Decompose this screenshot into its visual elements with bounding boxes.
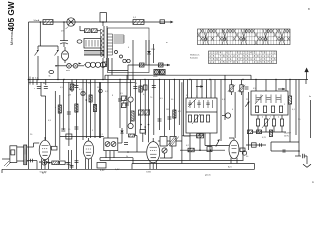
fuse lamp circle xyxy=(81,91,85,95)
trimmer cluster box A xyxy=(138,109,144,116)
IF transformer 3 can xyxy=(251,91,288,115)
wire drop x100 xyxy=(100,82,102,138)
svg-text:c: c xyxy=(34,88,35,90)
wire loop right vertical xyxy=(298,142,300,156)
capacitor stack c xyxy=(76,141,78,169)
resistor R2 heater dropper xyxy=(133,20,144,25)
wire drop x63 mid xyxy=(62,97,64,130)
wire drop x169 xyxy=(168,80,170,131)
dial lamp La1 xyxy=(67,18,75,26)
junction fuse left xyxy=(55,65,57,67)
wire heater arrow xyxy=(167,64,170,67)
svg-text:netz: netz xyxy=(66,69,70,72)
wire drop x76 lower xyxy=(75,97,77,141)
wire drop x37 caps xyxy=(36,80,38,86)
arrow label right xyxy=(278,88,285,90)
wire drop to transformer xyxy=(102,22,104,26)
wire IF1 bottom pins xyxy=(105,151,107,158)
contact table 1 xyxy=(198,29,291,45)
junction dots bundle xyxy=(86,99,88,101)
wire drop x148 xyxy=(148,80,150,143)
svg-text:6,3V~: 6,3V~ xyxy=(115,169,121,171)
svg-text:Wellensch.: Wellensch. xyxy=(190,55,200,57)
wire drop x133 upper xyxy=(132,40,134,80)
wire drop x59 lower xyxy=(59,95,61,160)
resistor R9 xyxy=(58,105,61,113)
wire screen row xyxy=(182,135,204,137)
tube V1 pins xyxy=(41,159,43,170)
capacitor C14 xyxy=(260,143,262,147)
capacitor C8 xyxy=(152,86,156,88)
wire drop x221 xyxy=(220,80,222,142)
bottom rect rail right join xyxy=(254,164,256,170)
svg-text:gleichr.: gleichr. xyxy=(205,174,211,177)
capacitor C21 xyxy=(31,159,33,163)
capacitor C22 xyxy=(61,129,65,131)
voltage selector box xyxy=(84,39,101,49)
below bus cluster boxes xyxy=(228,85,235,92)
wire V2 to V3 coupling xyxy=(118,151,146,153)
IF2 top row capacitors xyxy=(188,100,212,108)
transformer T1 core xyxy=(104,26,107,58)
pilot lamp pair xyxy=(154,69,159,74)
transformer T1 secondary taps xyxy=(107,34,113,55)
small circle in box b xyxy=(120,55,123,58)
small circle in box a xyxy=(115,51,118,54)
resistor R7a xyxy=(69,84,76,90)
box bottom right xyxy=(240,148,245,152)
box AVC mid xyxy=(66,134,72,139)
wire drop x241 xyxy=(241,80,243,85)
wire trafo to V1 xyxy=(27,146,34,148)
svg-text:2k: 2k xyxy=(126,156,128,158)
wire G2 rail xyxy=(180,149,225,151)
junction dots bottom xyxy=(39,161,41,163)
capacitor C10 mid xyxy=(167,117,171,119)
electrolytic circle x130 xyxy=(128,97,133,102)
box right of V1 xyxy=(52,146,58,150)
wire drop x45 xyxy=(45,80,47,86)
wire drop x153 xyxy=(153,80,155,136)
wire mains left drop xyxy=(28,22,30,169)
heater chain comb xyxy=(114,35,125,43)
capacitor C12 xyxy=(118,99,122,101)
wire side x310 xyxy=(310,100,312,138)
box right mid xyxy=(252,143,257,147)
capacitor C4 xyxy=(37,87,41,89)
svg-text:6e: 6e xyxy=(309,96,311,98)
wire trafo bottom out xyxy=(27,160,29,162)
resistor R22 screen xyxy=(197,134,204,138)
IF1 trimmer B xyxy=(111,142,116,147)
svg-text:U=220V: U=220V xyxy=(284,133,292,135)
wire drop x174 xyxy=(173,80,175,137)
wire drop x83 xyxy=(82,80,84,141)
wire R14 feed xyxy=(135,135,138,137)
junction node mains xyxy=(102,21,104,23)
wire IF1 feed b xyxy=(107,75,109,138)
grommet circle xyxy=(222,113,231,118)
IF2 tuning arrow top xyxy=(188,99,196,107)
rectifier tube V5 xyxy=(61,47,68,63)
svg-text:405 GW: 405 GW xyxy=(7,1,16,31)
bottom rect rail bottom xyxy=(132,168,255,170)
electrolytic stack a xyxy=(68,150,70,169)
wire drop x120 xyxy=(119,80,121,129)
wire drop x179 xyxy=(178,80,180,126)
wire row mid right xyxy=(246,144,266,146)
capacitor C23 xyxy=(74,127,78,129)
wire drop x159 xyxy=(159,80,161,131)
antenna arrow xyxy=(304,68,308,80)
oscillator coil box A xyxy=(160,137,167,147)
wire drop x183 xyxy=(183,80,185,137)
oscillator coil box B xyxy=(167,137,179,147)
svg-text:2M: 2M xyxy=(68,95,71,97)
wire heater left segment xyxy=(108,70,128,72)
wire drop x236 xyxy=(234,92,236,138)
wire drop x63 xyxy=(62,80,64,98)
wire drop x68 xyxy=(68,82,70,146)
dot loop xyxy=(298,150,300,152)
bottom bus left end tick xyxy=(1,169,3,173)
IF2 bottom row components xyxy=(188,115,209,122)
resistor R10 xyxy=(75,104,78,112)
IF3 feed wires xyxy=(255,80,257,92)
circle bottom right xyxy=(242,151,246,155)
diode D2 xyxy=(120,128,123,136)
below bus cluster caps xyxy=(245,87,249,89)
IF3 lower wires xyxy=(257,115,259,119)
trimmer block upper xyxy=(121,96,127,109)
wire drop x55 xyxy=(54,91,56,146)
IF2 divider xyxy=(186,111,217,113)
ground symbol xyxy=(303,156,311,167)
resistor R16 xyxy=(247,130,252,134)
wire osc feed horizontal xyxy=(184,135,190,137)
block box bottom xyxy=(97,163,106,169)
wire IF1 feed a xyxy=(99,82,101,138)
contact table 1 cross marks xyxy=(198,29,291,45)
svg-text:50e 3W: 50e 3W xyxy=(40,171,47,173)
box det xyxy=(140,130,146,134)
IF1 trimmer A xyxy=(105,142,110,147)
output loop left xyxy=(270,142,272,151)
capacitor C6 xyxy=(67,112,71,114)
wire AVC horizontal xyxy=(60,136,104,138)
wire core bottom xyxy=(106,58,108,62)
lamp circles small pair xyxy=(123,59,130,62)
small arrow up right xyxy=(245,101,249,106)
arrow label mid xyxy=(196,85,203,87)
wire drop x290 xyxy=(289,80,291,97)
capacitor C1 mains xyxy=(160,20,165,24)
wire drop x95 xyxy=(94,80,96,139)
wire drop x231 xyxy=(231,80,233,85)
box R20 xyxy=(60,161,66,165)
wire V1 grid feed xyxy=(40,82,42,96)
svg-text:5k: 5k xyxy=(49,76,51,78)
wire R19 row xyxy=(47,162,52,164)
wire det drop xyxy=(121,136,123,143)
small oval Sk xyxy=(49,71,54,74)
tone capacitor xyxy=(283,149,285,153)
IF3 capacitor row xyxy=(256,95,281,104)
wire speaker bottom xyxy=(17,160,24,162)
IF2 out wires xyxy=(189,133,191,161)
IF transformer 1 can xyxy=(104,138,118,151)
electrolytic capacitor C2 xyxy=(60,37,68,47)
wire rail corner xyxy=(132,158,134,164)
wire transformer bottom drop b xyxy=(111,58,113,75)
output loop bottom xyxy=(271,150,299,152)
bus upper left corner xyxy=(104,75,106,79)
capacitor C3a xyxy=(74,86,78,88)
svg-text:50mA: 50mA xyxy=(34,19,40,22)
box x145 xyxy=(143,85,147,90)
capacitor C13 xyxy=(125,103,129,105)
bus junction dots xyxy=(37,79,38,80)
wire osc links xyxy=(158,140,160,142)
wire cathode rail a xyxy=(100,157,133,159)
resistor R13 mid xyxy=(173,110,176,118)
small circle x100 xyxy=(99,89,103,93)
diode D1 xyxy=(147,40,151,65)
wire drop x181 long xyxy=(181,82,183,163)
wire switch feed xyxy=(39,22,41,46)
wire arrow mains end xyxy=(170,21,173,24)
wire x130 lower xyxy=(130,102,132,123)
wire drop x225 xyxy=(224,75,226,120)
wire osc bottom xyxy=(164,153,166,158)
tube V4 rectifier xyxy=(229,140,239,159)
wire drop x243 xyxy=(242,92,244,160)
tube V4 pins xyxy=(230,158,232,164)
wire in box xyxy=(153,44,155,63)
wire drop x130 xyxy=(130,80,132,97)
wire drop x146 upper xyxy=(145,40,147,65)
tube V1 AF7 xyxy=(39,140,51,159)
wire IF3 bottom rail xyxy=(252,131,286,133)
IF3 out components row xyxy=(256,118,283,128)
svg-text:6,3V: 6,3V xyxy=(100,170,105,172)
resistor R12 mid xyxy=(131,111,134,121)
resistor R19 xyxy=(52,161,59,165)
contact table 2 xyxy=(209,51,277,64)
rail dots xyxy=(199,149,201,151)
svg-text:Minerva: Minerva xyxy=(10,32,14,45)
wire drop x145 xyxy=(144,80,146,136)
output loop top xyxy=(271,141,299,143)
resistor R3 xyxy=(84,29,90,33)
junction dots mid xyxy=(140,124,142,126)
wire drop x140 xyxy=(140,80,142,131)
IF2 feed drops xyxy=(187,80,189,99)
resistor R18 vertical xyxy=(269,130,272,137)
heater socket circles row xyxy=(84,62,107,67)
bus upper segment xyxy=(105,74,251,76)
wire tick x306 xyxy=(305,80,307,85)
svg-text:50 Hz: 50 Hz xyxy=(284,136,289,138)
resistor R7 xyxy=(89,95,92,102)
power section box outline xyxy=(108,28,150,73)
selector pins comb xyxy=(84,51,104,57)
grid cap circle x130 xyxy=(128,123,133,128)
wire IF2 to V4 grid xyxy=(205,145,229,147)
bottom rect rail top xyxy=(132,163,255,165)
switch S1a xyxy=(35,50,39,80)
speaker chassis strokes xyxy=(4,161,11,167)
svg-text:5k: 5k xyxy=(43,83,45,85)
wire cathode rail b xyxy=(100,159,244,161)
bus upper right corner xyxy=(250,75,252,79)
wire drop x299 xyxy=(298,80,300,143)
wire drop x296 xyxy=(295,80,297,136)
box on rail xyxy=(207,147,212,152)
bottom chassis bus xyxy=(2,168,132,170)
wire output return xyxy=(27,160,37,162)
bottom rail left join xyxy=(131,164,133,170)
capacitor C11 xyxy=(124,143,128,145)
wire drop x135 xyxy=(134,80,136,136)
IF transformer 2 can xyxy=(186,98,217,133)
coupling capacitor C15 xyxy=(295,154,307,158)
svg-text:1M: 1M xyxy=(88,83,91,85)
capacitor C7 xyxy=(133,87,137,89)
tube V2 pins xyxy=(85,158,87,169)
transformer T1 primary winding xyxy=(101,29,105,57)
resistor R8 xyxy=(93,105,96,112)
barretter box xyxy=(100,13,106,22)
wire speaker left lead xyxy=(2,158,10,160)
wire drop x76 xyxy=(75,80,77,98)
bus left ends xyxy=(29,79,34,81)
wire cap top xyxy=(63,22,65,37)
wire mains top xyxy=(29,21,171,23)
contact table 2 digits xyxy=(210,53,277,64)
fuse Si2 xyxy=(73,64,78,69)
wire fuse row xyxy=(56,65,67,67)
electrolytic C16 xyxy=(42,160,47,165)
IF3 tuning arrow xyxy=(255,95,263,104)
resistor R15 xyxy=(288,96,291,104)
resistor R17 xyxy=(256,130,261,134)
speaker frame xyxy=(10,146,17,163)
capacitor C5 xyxy=(44,87,48,89)
svg-text:A: A xyxy=(312,180,314,184)
resistor R11 xyxy=(139,86,142,92)
fuse Si1 xyxy=(67,64,72,69)
capacitor C9 mid xyxy=(158,119,162,121)
small oval V5 anode xyxy=(77,40,82,43)
oscillator trimmer xyxy=(162,148,167,153)
resistor R21 on rail xyxy=(188,148,194,152)
wire drop x127 xyxy=(126,75,128,134)
resistor R14 xyxy=(129,134,135,137)
resistor R4 xyxy=(91,29,97,33)
wire drop x72 xyxy=(71,80,73,93)
wire R3 R4 row xyxy=(80,30,85,32)
svg-text:Kontakte: Kontakte xyxy=(190,57,199,60)
trimmer cluster box B xyxy=(144,109,150,116)
wire drop x164 xyxy=(163,80,165,137)
bus lower left segment xyxy=(33,81,135,83)
junction mains bus cross xyxy=(28,79,30,81)
tube V2 AF7 xyxy=(83,141,93,159)
tube V3 AL4 xyxy=(147,142,160,163)
box small mid xyxy=(103,62,107,67)
speaker magnet xyxy=(11,150,15,155)
IF3 inner row xyxy=(255,106,282,113)
svg-text:1M: 1M xyxy=(166,109,169,111)
wire drop x86 xyxy=(85,80,87,139)
resistor R6 heater xyxy=(158,63,163,67)
wire drop x248 xyxy=(248,92,250,150)
wire speaker top xyxy=(17,146,24,148)
wire drop x90 xyxy=(90,80,92,139)
value labels scatter xyxy=(30,78,301,169)
tube V3 pins xyxy=(149,162,151,169)
wire transformer bottom drop a xyxy=(102,58,104,80)
IF2 tuning arrow bottom xyxy=(192,114,200,124)
wire box det drop xyxy=(142,133,144,142)
top bus main xyxy=(33,79,308,81)
resistor R5 heater xyxy=(139,63,144,67)
voltage selector contacts xyxy=(86,40,98,47)
svg-text:4: 4 xyxy=(128,47,129,49)
bus start tee xyxy=(32,77,34,85)
tuning arrow diag xyxy=(216,139,220,146)
wire drop x128 upper xyxy=(127,65,129,80)
electrolytic stack b xyxy=(71,150,73,169)
output transformer winding xyxy=(24,145,27,165)
resistor R1 mains xyxy=(43,20,54,25)
switch S1b xyxy=(55,50,59,80)
arrow into sockets xyxy=(79,63,82,65)
wire heater mid xyxy=(128,64,170,66)
